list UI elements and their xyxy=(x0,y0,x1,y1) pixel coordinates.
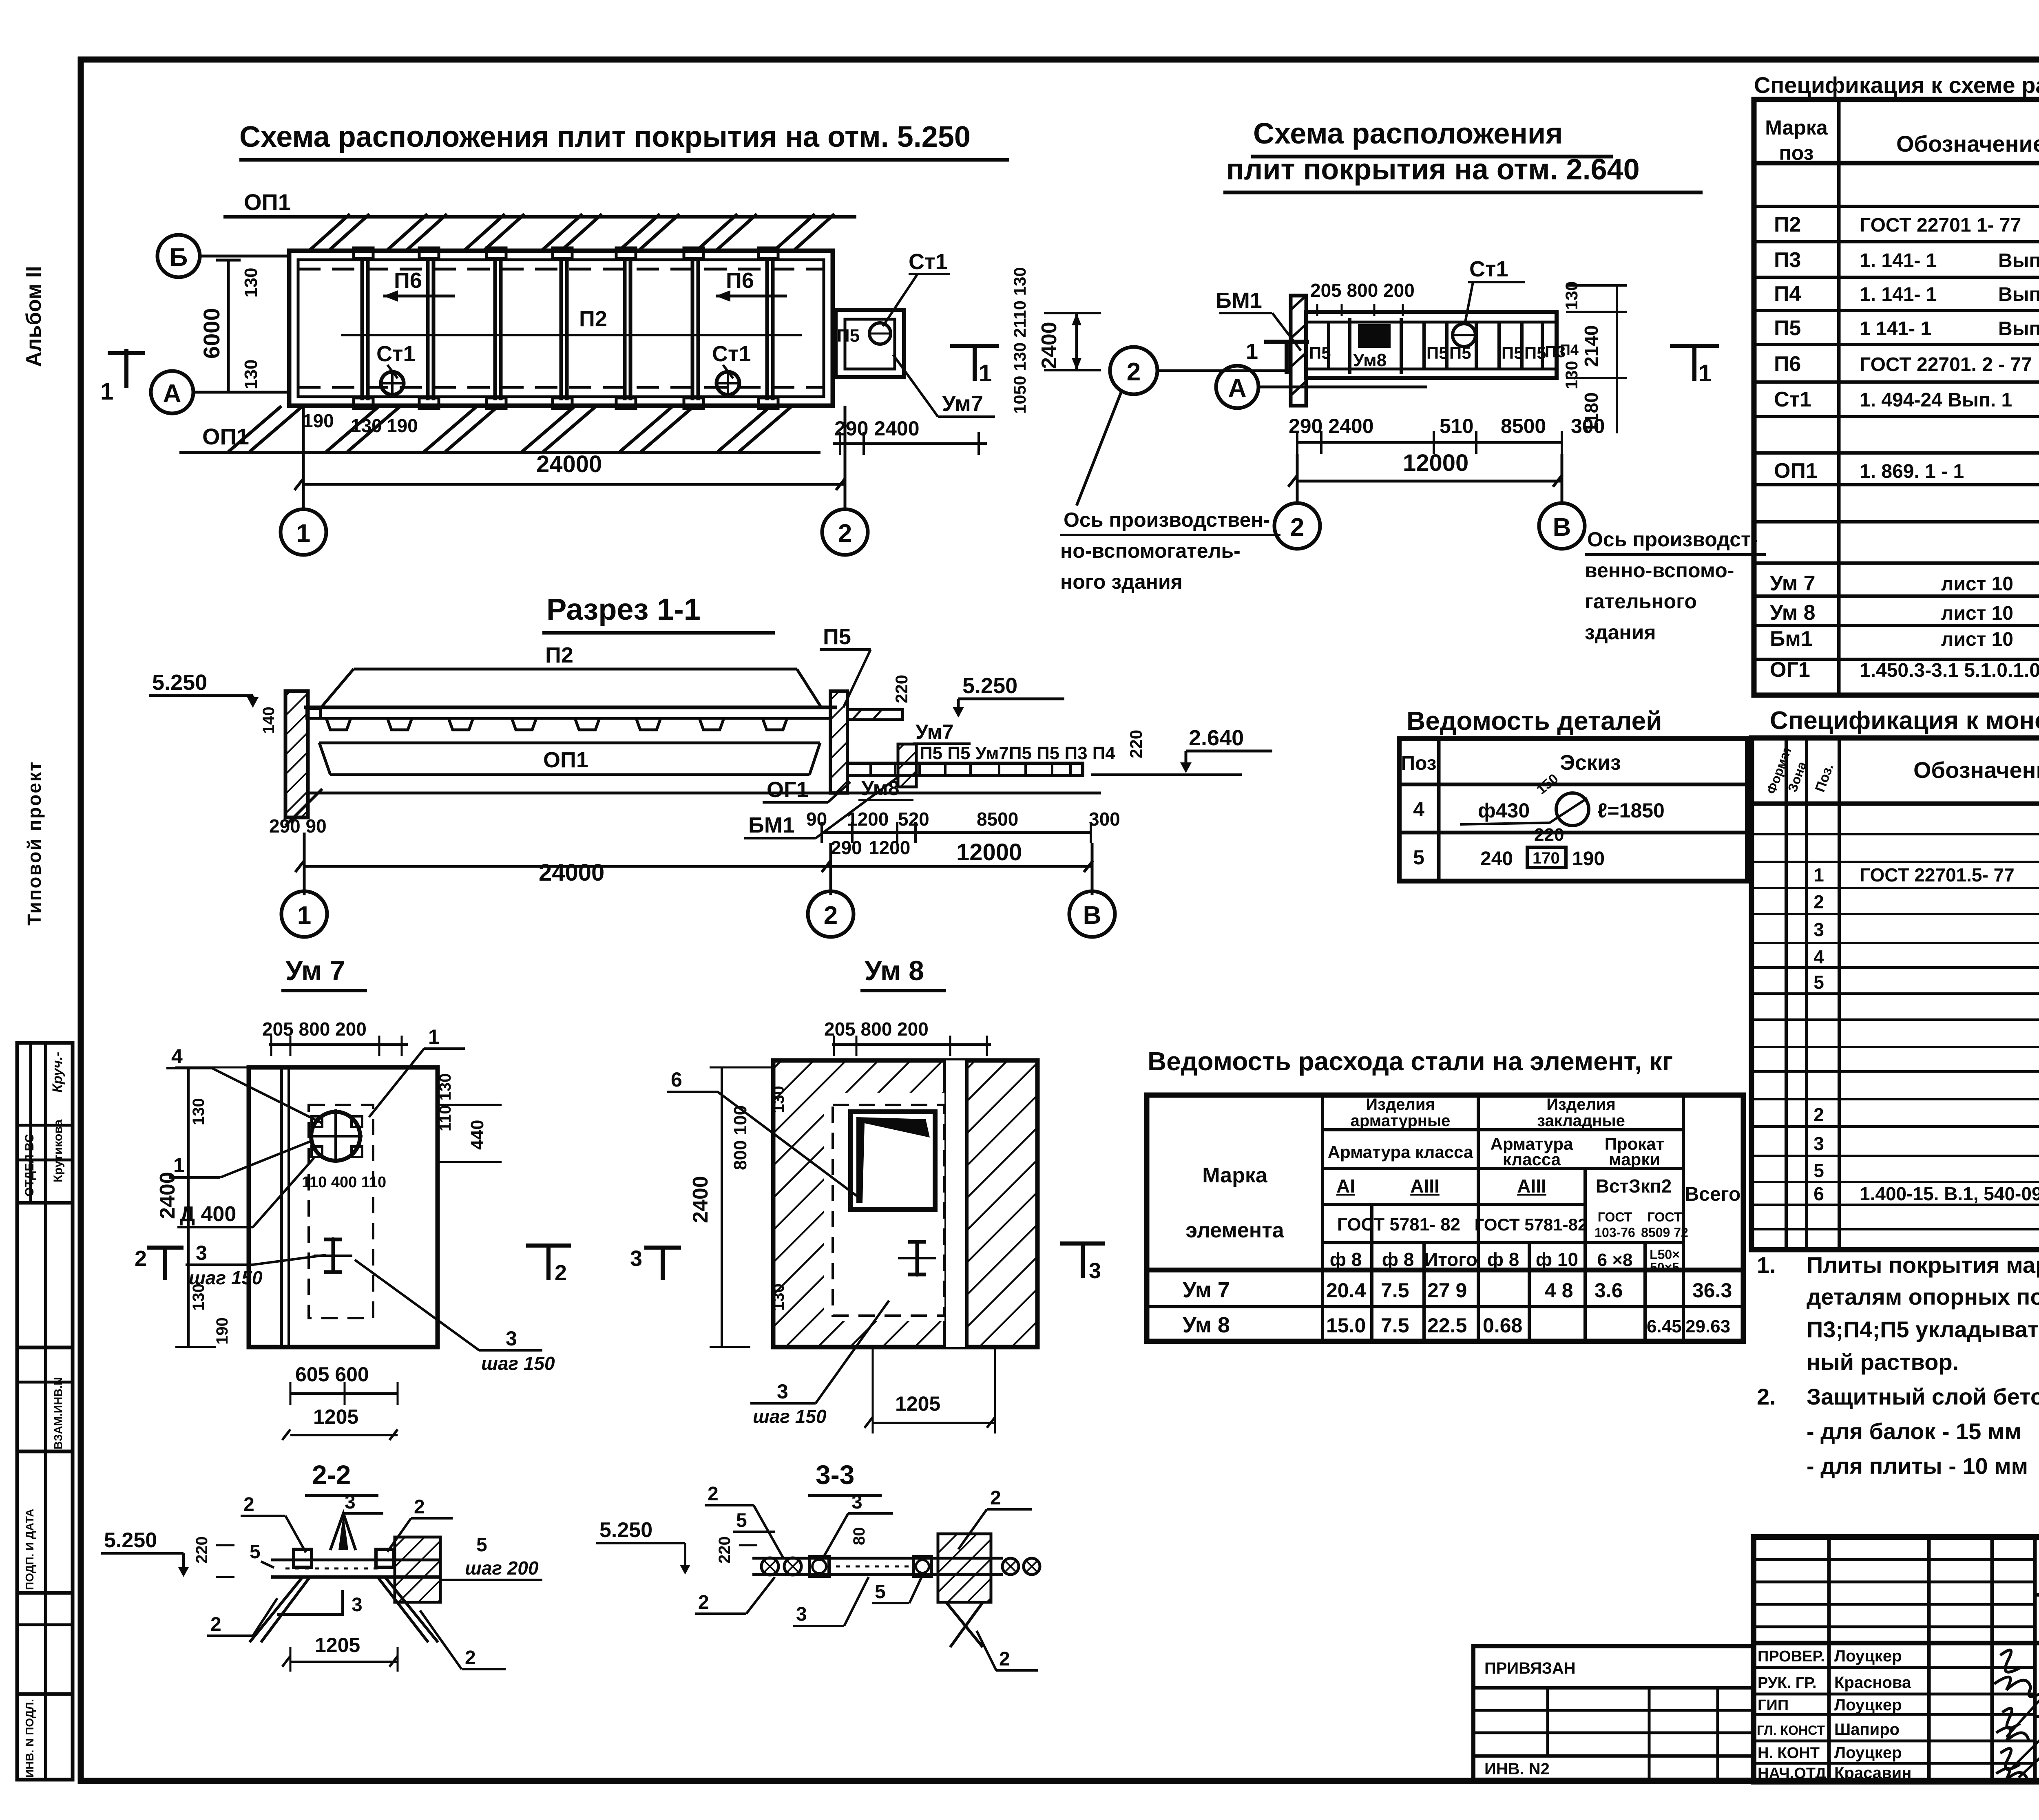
svg-text:ОГ1: ОГ1 xyxy=(767,777,809,802)
svg-text:2: 2 xyxy=(1813,1104,1824,1125)
svg-text:П5: П5 xyxy=(1309,343,1331,362)
glass St1 circle left xyxy=(381,372,404,395)
svg-text:130: 130 xyxy=(190,1283,208,1311)
trt horizontals xyxy=(1754,163,2039,659)
Um8 white work zone xyxy=(824,1093,944,1321)
svg-text:класса: класса xyxy=(1503,1150,1561,1169)
svg-text:Ум8: Ум8 xyxy=(861,777,899,800)
svg-text:поз: поз xyxy=(1779,141,1814,164)
svg-text:190: 190 xyxy=(213,1317,231,1345)
svg-text:5: 5 xyxy=(250,1541,261,1563)
svg-text:Ум 8: Ум 8 xyxy=(865,955,924,986)
svg-text:1205: 1205 xyxy=(895,1392,940,1415)
axis drop to circle V xyxy=(1561,454,1564,503)
dim 6000 vertical xyxy=(227,260,230,392)
svg-text:ф 10: ф 10 xyxy=(1536,1249,1578,1270)
svg-text:ный раствор.: ный раствор. xyxy=(1807,1349,1959,1375)
svg-text:440: 440 xyxy=(467,1120,487,1150)
svg-text:П6: П6 xyxy=(394,268,422,293)
svg-text:П2: П2 xyxy=(1774,213,1801,236)
slab ribs xyxy=(326,718,787,730)
svg-text:Всего: Всего xyxy=(1685,1184,1741,1205)
svg-text:деталям опорных подушек, пл: деталям опорных подушек, плиты покрытия … xyxy=(1807,1284,2039,1310)
title underline xyxy=(239,158,1009,162)
OP1 beam parallelogram xyxy=(319,743,820,775)
svg-text:ОП1: ОП1 xyxy=(244,189,291,215)
axis circle 2 razrez xyxy=(829,843,832,895)
svg-text:Итого: Итого xyxy=(1424,1249,1477,1270)
steel table horizontals xyxy=(1147,1130,1743,1307)
svg-text:1. 869. 1 - 1: 1. 869. 1 - 1 xyxy=(1860,461,1964,482)
svg-text:ℓ=1850: ℓ=1850 xyxy=(1597,799,1665,822)
svg-text:ОП1: ОП1 xyxy=(543,748,588,772)
svg-text:Альбом II: Альбом II xyxy=(22,266,46,367)
lower pad hatch strips xyxy=(228,406,792,452)
axis circle A xyxy=(151,371,193,413)
axis circle 2 of 2640 xyxy=(1274,503,1320,549)
svg-text:Обозначение: Обозначение xyxy=(1896,131,2039,157)
svg-text:Разрез 1-1: Разрез 1-1 xyxy=(546,592,701,626)
svg-text:Ведомость расхода стали на эле: Ведомость расхода стали на элемент, кг xyxy=(1148,1047,1673,1076)
svg-text:205 800 200: 205 800 200 xyxy=(824,1018,929,1040)
privyazan box xyxy=(1473,1646,1754,1780)
stamp mini-grid rows xyxy=(1754,1559,2035,1627)
svg-text:ГОСТ: ГОСТ xyxy=(1648,1210,1682,1224)
axis line A xyxy=(193,391,289,394)
svg-text:220: 220 xyxy=(892,675,911,703)
svg-text:П6: П6 xyxy=(1774,352,1801,376)
vedomost detaley table frame xyxy=(1399,739,1747,881)
3-3 slab lines xyxy=(752,1573,1003,1576)
sidebar stamp column outline xyxy=(17,1043,73,1780)
svg-text:Ум7: Ум7 xyxy=(916,720,953,743)
Um7 anchor squares at hole xyxy=(312,1116,322,1127)
svg-text:2: 2 xyxy=(465,1647,476,1669)
svg-text:1205: 1205 xyxy=(313,1405,358,1428)
svg-text:П3: П3 xyxy=(1774,248,1801,272)
svg-text:Марка: Марка xyxy=(1202,1164,1268,1187)
svg-text:1. 141- 1: 1. 141- 1 xyxy=(1860,284,1937,305)
svg-text:1. 141- 1: 1. 141- 1 xyxy=(1860,250,1937,272)
svg-text:1: 1 xyxy=(100,378,113,405)
svg-text:6.45: 6.45 xyxy=(1647,1316,1682,1336)
svg-text:Типовой проект: Типовой проект xyxy=(24,761,45,925)
svg-text:8500: 8500 xyxy=(1501,415,1546,437)
svg-text:марки: марки xyxy=(1609,1150,1660,1169)
svg-text:П5 П5 Ум7П5 П5 П3 П4: П5 П5 Ум7П5 П5 П3 П4 xyxy=(920,743,1115,763)
svg-text:арматурные: арматурные xyxy=(1351,1112,1451,1130)
svg-text:Ум 7: Ум 7 xyxy=(1183,1278,1230,1302)
svg-text:Изделия: Изделия xyxy=(1546,1096,1616,1113)
svg-text:Ум 8: Ум 8 xyxy=(1183,1313,1230,1337)
vd row5 box 170 xyxy=(1527,847,1566,868)
svg-text:2140: 2140 xyxy=(1581,325,1602,367)
steel table outer xyxy=(1147,1095,1743,1341)
axis circle 1 xyxy=(281,509,326,555)
svg-text:Крутикова: Крутикова xyxy=(51,1120,65,1182)
svg-text:ОТДЕЛ ВС: ОТДЕЛ ВС xyxy=(23,1134,36,1197)
axis2 wall hatched xyxy=(830,691,847,793)
extension line 2.640 level xyxy=(1091,773,1242,776)
svg-text:6: 6 xyxy=(1813,1183,1824,1204)
top right table outer xyxy=(1754,99,2039,695)
svg-text:Ум7: Ум7 xyxy=(942,391,983,416)
svg-text:5.250: 5.250 xyxy=(962,674,1017,698)
2-2 right legs xyxy=(378,1577,438,1642)
svg-text:1: 1 xyxy=(428,1025,440,1048)
Um7 hole circle xyxy=(311,1112,360,1161)
svg-text:Ось производствен-: Ось производствен- xyxy=(1064,508,1270,531)
svg-text:5: 5 xyxy=(736,1510,747,1531)
axis circle 2 xyxy=(822,509,868,555)
axis circle V xyxy=(1539,503,1585,549)
svg-text:Вып. 60: Вып. 60 xyxy=(1998,318,2039,340)
svg-text:1.450.3-3.1 5.1.0.1.0: 1.450.3-3.1 5.1.0.1.0 xyxy=(1860,660,2039,681)
svg-text:5.250: 5.250 xyxy=(152,670,207,695)
svg-text:4: 4 xyxy=(171,1045,183,1068)
svg-text:А: А xyxy=(163,380,181,408)
svg-text:ОП1: ОП1 xyxy=(202,424,249,449)
svg-text:300: 300 xyxy=(1089,808,1120,830)
Um7 section mark 2 left xyxy=(147,1248,184,1280)
Um8 white gap column xyxy=(944,1060,967,1347)
brt verticals xyxy=(1786,738,2039,1250)
svg-text:Ум8: Ум8 xyxy=(1353,350,1387,370)
svg-text:50×5: 50×5 xyxy=(1650,1260,1679,1275)
svg-text:В: В xyxy=(1083,901,1101,930)
Um8 section mark 3 left xyxy=(644,1248,681,1280)
right appendage box xyxy=(836,310,904,377)
svg-text:Спецификация к схеме расположе: Спецификация к схеме расположения плит п… xyxy=(1754,72,2039,98)
2-2 slab line xyxy=(271,1575,440,1579)
svg-text:БМ1: БМ1 xyxy=(748,813,795,837)
svg-text:2: 2 xyxy=(990,1487,1001,1509)
svg-text:ИНВ. N2: ИНВ. N2 xyxy=(1484,1760,1550,1778)
svg-text:80: 80 xyxy=(850,1527,868,1546)
glass St1 circle right xyxy=(717,372,739,395)
svg-text:5: 5 xyxy=(1813,1160,1824,1181)
svg-text:3: 3 xyxy=(1089,1259,1101,1283)
svg-text:П4: П4 xyxy=(1560,341,1579,358)
svg-text:АI: АI xyxy=(1336,1175,1355,1197)
svg-text:1: 1 xyxy=(1813,864,1824,886)
Um7 dashed inner rect xyxy=(309,1105,373,1318)
svg-text:ГОСТ: ГОСТ xyxy=(1598,1210,1632,1224)
svg-text:2: 2 xyxy=(708,1483,719,1505)
svg-text:ГОСТ 22701.5- 77: ГОСТ 22701.5- 77 xyxy=(1860,864,2015,886)
svg-text:ГОСТ 22701 1- 77: ГОСТ 22701 1- 77 xyxy=(1860,214,2021,236)
svg-text:5.250: 5.250 xyxy=(599,1518,652,1542)
svg-text:220: 220 xyxy=(193,1536,211,1564)
svg-text:36.3: 36.3 xyxy=(1692,1279,1732,1302)
axis circle V razrez xyxy=(1091,843,1094,895)
svg-text:190: 190 xyxy=(303,410,334,431)
svg-text:0.68: 0.68 xyxy=(1483,1314,1522,1337)
svg-text:П5: П5 xyxy=(1774,316,1801,340)
3-3 X brace right xyxy=(946,1602,983,1647)
stamp main horizontal xyxy=(1754,1641,2039,1646)
svg-text:НАЧ.ОТД: НАЧ.ОТД xyxy=(1758,1765,1826,1782)
svg-text:1205: 1205 xyxy=(315,1634,360,1657)
svg-text:190: 190 xyxy=(387,415,418,436)
svg-text:Плиты покрытия марки П2,П6: Плиты покрытия марки П2,П6 приварить к з… xyxy=(1807,1252,2039,1278)
inner dashed line bottom xyxy=(298,386,824,389)
svg-text:Ведомость деталей: Ведомость деталей xyxy=(1407,706,1662,736)
svg-text:2.640: 2.640 xyxy=(1189,726,1244,750)
svg-text:800 100: 800 100 xyxy=(730,1105,750,1170)
svg-text:220: 220 xyxy=(1534,825,1564,845)
Um8 monolith dark patch xyxy=(1358,324,1391,348)
svg-text:П5: П5 xyxy=(837,326,860,346)
svg-text:3: 3 xyxy=(796,1604,807,1625)
svg-text:шаг 150: шаг 150 xyxy=(753,1406,827,1427)
brt row grid xyxy=(1752,804,2039,1229)
svg-text:2: 2 xyxy=(838,519,852,548)
svg-text:Обозначение: Обозначение xyxy=(1913,757,2039,783)
svg-text:венно-вспомо-: венно-вспомо- xyxy=(1585,559,1734,582)
Um7 left band line xyxy=(280,1067,283,1347)
2-2 right hatched block xyxy=(395,1537,440,1602)
axis line A 2640 xyxy=(1258,386,1427,389)
svg-text:290: 290 xyxy=(831,837,862,858)
svg-text:Бм1: Бм1 xyxy=(1770,627,1813,651)
plan 2640 cell dividers xyxy=(1329,318,1542,374)
svg-text:Ст1: Ст1 xyxy=(1774,388,1811,411)
Um7 outer rect xyxy=(249,1067,438,1347)
svg-text:12000: 12000 xyxy=(1403,450,1468,476)
svg-text:90: 90 xyxy=(806,808,827,830)
svg-text:Н. КОНТ: Н. КОНТ xyxy=(1758,1745,1820,1762)
svg-text:1: 1 xyxy=(979,360,992,387)
Um8 I-anchor symbol xyxy=(908,1242,926,1274)
svg-text:2: 2 xyxy=(824,901,838,930)
Um8 window dark wedge xyxy=(856,1117,930,1203)
svg-text:здания: здания xyxy=(1585,621,1656,644)
svg-text:ф 8: ф 8 xyxy=(1487,1249,1519,1270)
svg-text:510: 510 xyxy=(1440,415,1473,437)
svg-text:Лоуцкер: Лоуцкер xyxy=(1834,1647,1902,1665)
lower OP1 pad reference line xyxy=(179,451,820,454)
svg-text:3: 3 xyxy=(196,1241,207,1264)
Um8 dashed inner rect xyxy=(833,1105,944,1316)
svg-text:Эскиз: Эскиз xyxy=(1560,751,1621,775)
svg-text:Изделия: Изделия xyxy=(1366,1096,1435,1113)
svg-text:4 8: 4 8 xyxy=(1545,1279,1573,1302)
svg-text:3.6: 3.6 xyxy=(1594,1279,1623,1302)
svg-text:20.4: 20.4 xyxy=(1326,1279,1366,1302)
svg-text:24000: 24000 xyxy=(536,451,602,477)
slab band top lines xyxy=(304,706,837,709)
svg-text:лист 10: лист 10 xyxy=(1941,573,2013,595)
3-3 far right circles xyxy=(1002,1558,1019,1575)
plate joints xyxy=(362,257,773,400)
section mark T1 2640 xyxy=(1670,346,1719,381)
svg-text:5: 5 xyxy=(1413,846,1424,869)
svg-text:27 9: 27 9 xyxy=(1427,1279,1467,1302)
3-3 right hatched block xyxy=(938,1534,991,1602)
svg-text:лист 10: лист 10 xyxy=(1941,603,2013,624)
svg-text:ф430: ф430 xyxy=(1478,799,1530,822)
svg-text:- для плиты - 10 мм: - для плиты - 10 мм xyxy=(1807,1453,2028,1479)
stamp doc number band line xyxy=(2035,1593,2039,1597)
vertical dim line 2400 xyxy=(1075,313,1078,370)
svg-text:22.5: 22.5 xyxy=(1427,1314,1467,1337)
inner dashed line top xyxy=(298,268,824,271)
axis drop line 2 xyxy=(844,406,847,510)
svg-text:ГИП: ГИП xyxy=(1758,1697,1789,1714)
svg-text:3: 3 xyxy=(630,1246,642,1271)
svg-text:520: 520 xyxy=(898,808,929,830)
svg-text:П4: П4 xyxy=(1774,282,1801,306)
svg-text:1: 1 xyxy=(1698,360,1712,387)
svg-text:Схема расположения: Схема расположения xyxy=(1253,117,1563,150)
svg-text:3: 3 xyxy=(506,1327,517,1350)
svg-text:Схема расположения плит покрыт: Схема расположения плит покрытия на отм.… xyxy=(239,121,971,153)
svg-text:220: 220 xyxy=(716,1536,734,1564)
section mark 1 top-left xyxy=(108,349,145,388)
svg-text:130: 130 xyxy=(770,1086,787,1113)
svg-text:П6: П6 xyxy=(726,268,754,293)
svg-text:140: 140 xyxy=(260,707,278,734)
svg-text:110 130: 110 130 xyxy=(436,1073,454,1131)
svg-text:ф 8: ф 8 xyxy=(1330,1249,1362,1270)
svg-text:1200: 1200 xyxy=(869,837,910,858)
axis circle B(cyr) xyxy=(157,235,200,277)
svg-text:220: 220 xyxy=(1126,730,1146,758)
svg-text:2: 2 xyxy=(243,1494,254,1515)
svg-text:1 141- 1: 1 141- 1 xyxy=(1860,318,1931,340)
svg-text:8500: 8500 xyxy=(977,808,1018,830)
svg-text:П5: П5 xyxy=(1426,343,1449,362)
svg-text:Б: Б xyxy=(170,243,188,272)
stamp name rows xyxy=(1754,1668,2035,1763)
svg-text:Поз: Поз xyxy=(1401,753,1436,774)
svg-text:130: 130 xyxy=(190,1098,208,1125)
svg-text:6: 6 xyxy=(671,1068,682,1091)
svg-text:2400: 2400 xyxy=(689,1176,712,1223)
Um7 I-anchor symbol xyxy=(324,1239,342,1272)
upper OP1 pad reference line xyxy=(223,215,856,219)
svg-text:2-2: 2-2 xyxy=(312,1460,351,1490)
upper pad hatch strips xyxy=(310,214,834,250)
svg-text:290 90: 290 90 xyxy=(269,815,327,837)
svg-text:ф 8: ф 8 xyxy=(1382,1249,1414,1270)
svg-text:Ст1: Ст1 xyxy=(712,342,751,366)
sidebar vertical divider xyxy=(44,1043,47,1780)
svg-text:12000: 12000 xyxy=(956,839,1022,866)
svg-text:103-76: 103-76 xyxy=(1594,1225,1635,1240)
svg-text:ного здания: ного здания xyxy=(1060,570,1183,593)
svg-text:Ст1: Ст1 xyxy=(1469,257,1508,281)
steel table verticals xyxy=(1322,1095,1683,1341)
svg-text:6000: 6000 xyxy=(199,308,224,359)
svg-text:Ст1: Ст1 xyxy=(376,342,415,366)
svg-text:2.: 2. xyxy=(1757,1384,1776,1409)
svg-text:2: 2 xyxy=(135,1246,147,1271)
svg-text:ОГ1: ОГ1 xyxy=(1770,658,1810,682)
svg-text:605 600: 605 600 xyxy=(295,1363,369,1386)
svg-text:L50×: L50× xyxy=(1650,1247,1680,1262)
axis line B xyxy=(200,255,289,258)
svg-text:АIII: АIII xyxy=(1410,1175,1440,1197)
svg-text:ГОСТ 5781- 82: ГОСТ 5781- 82 xyxy=(1337,1215,1460,1235)
svg-text:ОП1: ОП1 xyxy=(1774,459,1818,483)
svg-text:ВЗАМ.ИНВ.N: ВЗАМ.ИНВ.N xyxy=(52,1377,64,1449)
plan outline double rect xyxy=(289,251,833,406)
axis circle A 2640 xyxy=(1216,366,1258,408)
svg-text:Защитный слой бетона для м: Защитный слой бетона для монолитных учас… xyxy=(1807,1384,2039,1409)
stamp signatures squiggle xyxy=(1994,1650,2039,1780)
Um8 window opening xyxy=(851,1112,935,1209)
3-3 bar circles left xyxy=(761,1558,778,1575)
svg-text:Лоуцкер: Лоуцкер xyxy=(1834,1696,1902,1714)
svg-text:3: 3 xyxy=(352,1594,363,1616)
svg-text:П5: П5 xyxy=(823,625,851,649)
svg-text:шаг 150: шаг 150 xyxy=(481,1353,555,1374)
svg-text:130: 130 xyxy=(351,415,382,436)
svg-text:Краснова: Краснова xyxy=(1834,1674,1911,1692)
svg-text:Марка: Марка xyxy=(1765,116,1828,139)
svg-text:Ум 7: Ум 7 xyxy=(285,955,345,986)
svg-text:130: 130 xyxy=(770,1283,787,1311)
svg-text:2: 2 xyxy=(414,1496,425,1518)
svg-text:1.400-15. В.1, 540-09: 1.400-15. В.1, 540-09 xyxy=(1860,1183,2039,1204)
svg-text:110 400 110: 110 400 110 xyxy=(302,1174,386,1191)
left wall strip of plan 2640 xyxy=(1291,296,1306,406)
svg-text:290 2400: 290 2400 xyxy=(1289,415,1374,437)
svg-text:1: 1 xyxy=(1246,339,1258,364)
left wall foot line xyxy=(285,789,322,826)
leader circle 2 left xyxy=(1110,347,1157,394)
hatched pier mid xyxy=(898,744,916,787)
svg-text:3: 3 xyxy=(345,1491,356,1513)
svg-text:4: 4 xyxy=(1813,946,1824,967)
svg-text:П5: П5 xyxy=(1502,343,1524,362)
svg-text:3: 3 xyxy=(777,1380,788,1403)
Um7 section mark T2 right xyxy=(526,1246,571,1280)
svg-text:лист 10: лист 10 xyxy=(1941,629,2013,650)
svg-text:3-3: 3-3 xyxy=(816,1460,854,1490)
svg-text:ПОДП. И ДАТА: ПОДП. И ДАТА xyxy=(23,1509,36,1590)
svg-text:ИНВ. N ПОДЛ.: ИНВ. N ПОДЛ. xyxy=(23,1699,36,1778)
svg-text:Шапиро: Шапиро xyxy=(1834,1721,1900,1738)
svg-text:ВстЗкп2: ВстЗкп2 xyxy=(1596,1175,1672,1197)
svg-text:ПРИВЯЗАН: ПРИВЯЗАН xyxy=(1484,1659,1576,1677)
svg-text:205 800 200: 205 800 200 xyxy=(1310,280,1415,301)
svg-text:1.: 1. xyxy=(1757,1252,1776,1278)
svg-text:2: 2 xyxy=(1290,513,1304,541)
svg-text:2: 2 xyxy=(210,1614,221,1635)
svg-text:ГОСТ 5781-82: ГОСТ 5781-82 xyxy=(1475,1215,1588,1234)
svg-text:190: 190 xyxy=(1572,848,1605,870)
svg-text:Спецификация к монолитным у: Спецификация к монолитным участкам xyxy=(1770,707,2039,735)
svg-text:П2: П2 xyxy=(545,643,573,667)
svg-text:7.5: 7.5 xyxy=(1381,1279,1409,1302)
svg-text:Вып. 60: Вып. 60 xyxy=(1998,250,2039,272)
svg-text:1050 130 2110 130: 1050 130 2110 130 xyxy=(1010,267,1029,414)
svg-text:Круч.-: Круч.- xyxy=(50,1052,65,1093)
2-2 washer squares xyxy=(294,1549,312,1567)
axis circle 1 razrez xyxy=(303,833,306,895)
svg-text:Вып. 60: Вып. 60 xyxy=(1998,284,2039,305)
svg-text:4: 4 xyxy=(1413,798,1424,821)
svg-text:1. 494-24 Вып. 1: 1. 494-24 Вып. 1 xyxy=(1860,389,2012,411)
svg-text:5: 5 xyxy=(476,1534,487,1556)
svg-text:29.63: 29.63 xyxy=(1685,1316,1730,1336)
svg-text:АIII: АIII xyxy=(1517,1175,1546,1197)
svg-text:170: 170 xyxy=(1533,849,1560,867)
svg-text:130: 130 xyxy=(241,360,261,389)
